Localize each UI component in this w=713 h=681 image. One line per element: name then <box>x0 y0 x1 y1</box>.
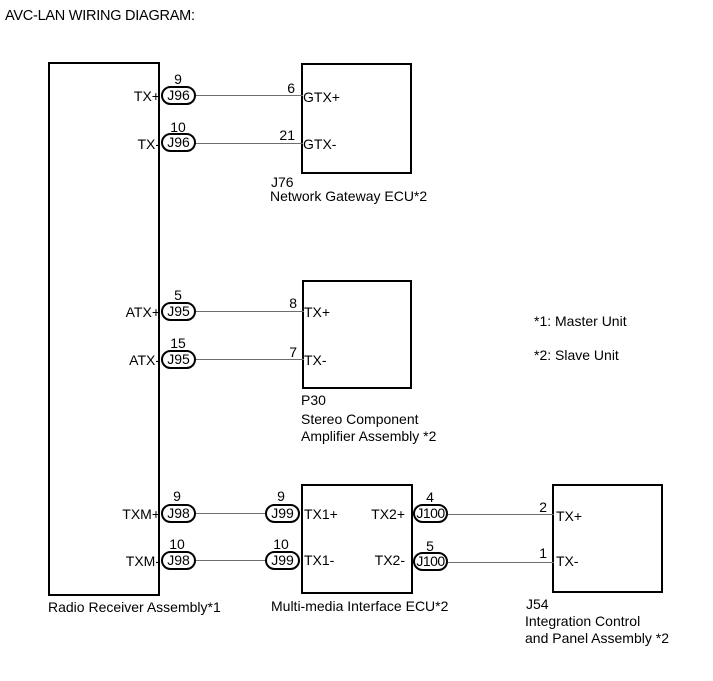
caption Integration Control <box>525 614 640 628</box>
wire row6 J98 to J99 <box>178 560 283 561</box>
pin number 10 at J99 <box>273 537 289 551</box>
connector J95 pin15 <box>161 350 196 369</box>
signal label TX- <box>137 137 160 151</box>
connector J100 pin5 <box>413 552 448 571</box>
pin label TX2+ <box>371 507 405 521</box>
wire row5 J100 to J54 <box>430 514 554 515</box>
caption Network Gateway ECU <box>270 189 427 203</box>
pin number 9 <box>174 72 182 86</box>
connector J96 pin9 <box>161 86 196 105</box>
pin number 10 at J98 <box>169 537 185 551</box>
connector J100 pin4 <box>413 504 448 523</box>
caption Stereo Component <box>301 412 419 426</box>
signal label TXM- <box>126 554 160 568</box>
connector J98 pin9 <box>161 504 196 523</box>
pin number 5 <box>174 288 182 302</box>
signal label ATX- <box>129 353 160 367</box>
box J76 Network Gateway ECU <box>301 63 412 174</box>
pin number 5 at J100 <box>426 539 434 553</box>
signal label ATX+ <box>126 305 160 319</box>
wire row2 TX- to GTX- <box>178 143 303 144</box>
box Radio Receiver Assembly <box>48 62 160 596</box>
caption Radio Receiver Assembly <box>48 600 221 614</box>
wire row4 ATX- to TX- <box>178 359 304 360</box>
connector J99 pin9 <box>265 504 300 523</box>
signal label TXM+ <box>122 507 160 521</box>
connector J98 pin10 <box>161 551 196 570</box>
connector J99 pin10 <box>265 551 300 570</box>
title <box>5 9 195 23</box>
note *1 Master Unit <box>534 314 627 328</box>
connector J96 pin10 <box>161 133 196 152</box>
box Multi-media Interface ECU <box>301 484 413 594</box>
pin number 21 <box>279 128 295 142</box>
pin number 9 at J99 <box>277 489 285 503</box>
caption and Panel Assembly <box>525 631 669 645</box>
pin number 6 <box>287 81 295 95</box>
pin number 2 <box>539 500 547 514</box>
pin label GTX+ <box>303 90 340 104</box>
pin label TX- at J54 <box>556 554 579 568</box>
box J54 Integration Control and Panel Assembly <box>552 484 663 593</box>
pin label TX1+ <box>304 507 338 521</box>
pin label TX+ <box>304 305 330 319</box>
pin number 4 at J100 <box>426 490 434 504</box>
box P30 Stereo Component Amplifier Assembly <box>302 280 412 389</box>
pin label TX1- <box>304 553 334 567</box>
connector J95 pin5 <box>161 302 196 321</box>
pin label GTX- <box>303 137 336 151</box>
pin number 7 <box>289 345 297 359</box>
wire row3 ATX+ to TX+ <box>178 311 304 312</box>
pin number 1 <box>539 546 547 560</box>
note *2 Slave Unit <box>534 348 619 362</box>
wire row5 J98 to J99 <box>178 513 283 514</box>
pin label TX2- <box>375 553 405 567</box>
caption Multi-media Interface ECU <box>271 599 448 613</box>
caption J76 <box>271 175 294 189</box>
signal label TX+ <box>134 89 160 103</box>
caption J54 <box>526 597 549 611</box>
pin label TX+ at J54 <box>556 509 582 523</box>
pin number 8 <box>289 296 297 310</box>
caption Amplifier Assembly <box>301 429 436 443</box>
pin number 10 <box>170 120 186 134</box>
pin number 9 at J98 <box>173 489 181 503</box>
caption P30 <box>301 393 326 407</box>
pin number 15 <box>170 336 186 350</box>
pin label TX- <box>304 353 327 367</box>
wire row6 J100 to J54 <box>430 562 554 563</box>
wire row1 TX+ to GTX+ <box>178 95 303 96</box>
